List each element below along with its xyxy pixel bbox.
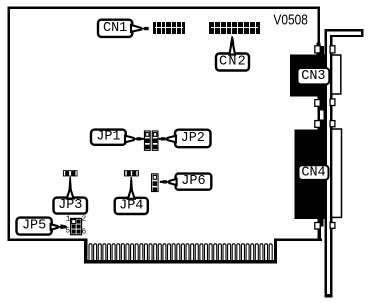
arrow from CN2 label to connector <box>229 36 235 54</box>
jumper block JP6 (1x3 pin header, top pin open) <box>151 173 159 192</box>
jumper block JP3 (3-pin header with cap) <box>63 170 78 176</box>
svg-text:CN3: CN3 <box>301 69 325 84</box>
card edge connector gold-finger teeth <box>89 244 272 262</box>
comb bottom bar <box>84 260 277 263</box>
jumper block JP4 (3-pin header with cap) <box>124 170 139 176</box>
black mounting block above CN3 <box>317 43 321 55</box>
mount tab left below CN3 <box>315 100 320 107</box>
black band between CN3 and CN4 <box>317 96 327 129</box>
label JP1 <box>91 130 126 145</box>
jumper block for JP1/JP2 (2x3 pin header, pins 3-6 jumpered) <box>144 130 159 151</box>
svg-text:2: 2 <box>82 216 87 224</box>
svg-text:JP6: JP6 <box>181 174 205 189</box>
mount tab left above CN3 <box>315 46 320 53</box>
svg-text:JP2: JP2 <box>181 131 205 146</box>
black stub below CN4 <box>320 219 324 226</box>
mount tab right above CN3 <box>330 46 335 53</box>
svg-text:1: 1 <box>66 216 71 224</box>
board right edge segment below CN4 tab <box>320 227 321 239</box>
svg-text:JP3: JP3 <box>58 198 82 213</box>
arrow from JP4 label to jumper block <box>128 177 135 199</box>
label JP4 <box>115 198 148 214</box>
mounting bracket vertical strip <box>325 29 333 297</box>
svg-text:6: 6 <box>82 229 87 237</box>
connector CN2 (header) <box>209 22 260 34</box>
mount tab right above CN4 <box>330 121 335 127</box>
svg-text:JP1: JP1 <box>96 130 120 145</box>
mount tab right below CN3 <box>330 99 335 106</box>
jumper block JP5 (2x3 pin header, pin 1 open) <box>70 218 82 236</box>
label CN2 <box>216 54 249 71</box>
arrow from JP6 label to jumper block <box>160 179 177 185</box>
svg-text:CN2: CN2 <box>219 55 247 70</box>
label CN1 <box>98 20 132 37</box>
svg-text:CN4: CN4 <box>301 165 325 180</box>
arrow from JP5 label to jumper block <box>51 224 68 230</box>
D-sub connector of CN3 (through bracket) <box>332 55 341 94</box>
label CN3 <box>298 68 330 84</box>
mounting bracket arm (top) <box>325 29 364 37</box>
svg-text:5: 5 <box>66 228 71 236</box>
label JP2 <box>175 130 211 148</box>
white notch in band <box>320 110 324 119</box>
connector CN4 body <box>295 129 328 219</box>
mount tab left below CN4 <box>315 223 320 230</box>
label JP5 <box>17 218 52 235</box>
arrow from JP3 label to jumper block <box>67 177 74 199</box>
mount tab left above CN4 <box>315 121 321 128</box>
D-sub connector of CN4 (through bracket) <box>332 129 342 217</box>
svg-text:JP5: JP5 <box>22 219 46 234</box>
connector CN3 body <box>290 54 327 96</box>
label JP6 <box>176 174 212 190</box>
arrow from JP2 label to jumper block <box>159 136 176 143</box>
mount tab right below CN4 <box>330 223 335 229</box>
svg-text:JP4: JP4 <box>119 198 143 213</box>
arrow from CN1 label to connector <box>131 25 149 32</box>
svg-text:V0508: V0508 <box>273 11 308 28</box>
label CN4 <box>299 165 329 180</box>
connector CN1 (header) <box>153 22 185 34</box>
board outline (PCB) <box>8 7 323 264</box>
svg-text:CN1: CN1 <box>103 21 127 36</box>
arrow from JP1 label to jumper block <box>125 136 144 143</box>
label JP3 <box>54 198 88 214</box>
